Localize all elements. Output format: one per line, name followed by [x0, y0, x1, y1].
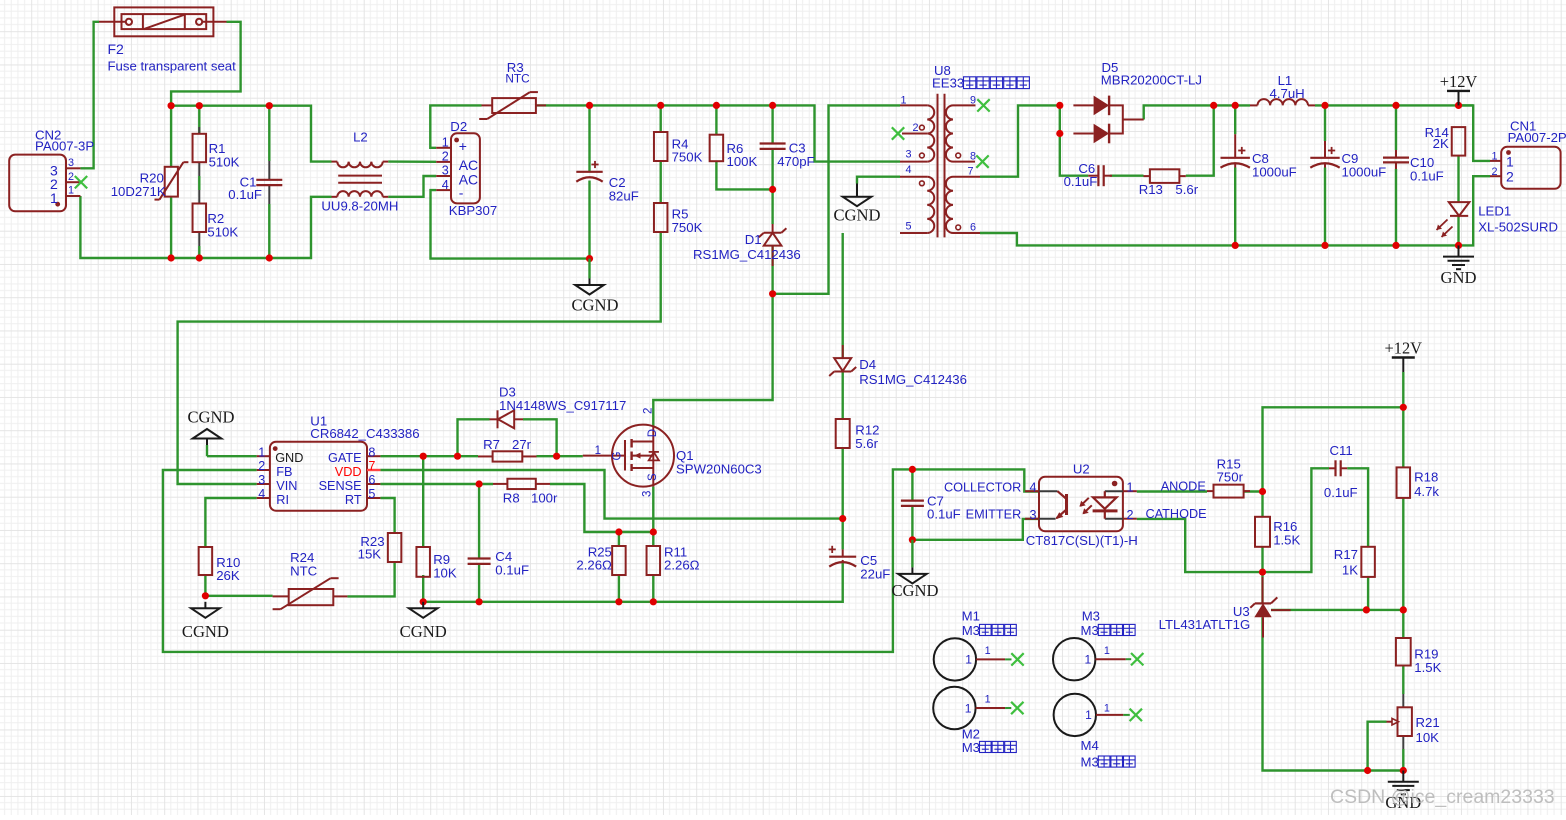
- svg-text:RS1MG_C412436: RS1MG_C412436: [859, 372, 967, 387]
- svg-text:2: 2: [643, 408, 655, 414]
- svg-text:C11: C11: [1330, 443, 1353, 458]
- svg-text:M3: M3: [1081, 754, 1099, 769]
- svg-text:9: 9: [970, 95, 976, 107]
- svg-text:4.7uH: 4.7uH: [1270, 86, 1305, 101]
- svg-text:CGND: CGND: [833, 206, 880, 225]
- svg-text:M3: M3: [962, 740, 980, 755]
- svg-text:1: 1: [965, 653, 972, 667]
- svg-text:1: 1: [68, 185, 74, 197]
- svg-text:1000uF: 1000uF: [1342, 165, 1387, 180]
- svg-text:1N4148WS_C917117: 1N4148WS_C917117: [499, 398, 626, 413]
- svg-text:EMITTER: EMITTER: [966, 508, 1022, 522]
- svg-text:1: 1: [1085, 708, 1092, 722]
- svg-text:1.5K: 1.5K: [1273, 532, 1300, 547]
- svg-text:GND: GND: [1441, 268, 1477, 287]
- svg-text:10K: 10K: [1416, 730, 1440, 745]
- svg-text:4: 4: [442, 178, 449, 192]
- svg-text:KBP307: KBP307: [449, 203, 497, 218]
- svg-text:GND: GND: [275, 451, 303, 465]
- svg-text:1: 1: [985, 645, 991, 657]
- svg-text:510K: 510K: [207, 225, 238, 240]
- svg-text:1: 1: [1506, 153, 1514, 169]
- svg-text:M1: M1: [962, 609, 980, 624]
- svg-text:COLLECTOR: COLLECTOR: [944, 480, 1021, 494]
- svg-text:2: 2: [258, 459, 265, 473]
- svg-text:0.1uF: 0.1uF: [927, 506, 961, 521]
- svg-text:750r: 750r: [1217, 470, 1244, 485]
- svg-text:MBR20200CT-LJ: MBR20200CT-LJ: [1101, 72, 1202, 87]
- svg-text:M4: M4: [1081, 738, 1099, 753]
- svg-text:GATE: GATE: [328, 451, 362, 465]
- svg-text:0.1uF: 0.1uF: [228, 187, 262, 202]
- svg-text:1: 1: [1085, 653, 1092, 667]
- svg-text:CGND: CGND: [891, 581, 938, 600]
- svg-text:3: 3: [905, 149, 911, 161]
- svg-text:3: 3: [1029, 508, 1036, 522]
- svg-text:7: 7: [968, 166, 974, 178]
- svg-text:4.7k: 4.7k: [1414, 484, 1439, 499]
- svg-text:D2: D2: [450, 119, 467, 134]
- svg-text:2: 2: [68, 171, 74, 183]
- svg-text:D1: D1: [745, 232, 762, 247]
- svg-text:2: 2: [912, 122, 918, 134]
- svg-text:RT: RT: [345, 493, 362, 507]
- svg-text:1: 1: [1104, 703, 1110, 715]
- svg-text:26K: 26K: [216, 568, 240, 583]
- svg-text:RS1MG_C412436: RS1MG_C412436: [693, 247, 801, 262]
- svg-text:SPW20N60C3: SPW20N60C3: [676, 461, 762, 476]
- svg-text:2: 2: [1506, 168, 1514, 184]
- svg-text:-: -: [459, 184, 464, 200]
- svg-text:EE33: EE33: [932, 76, 964, 91]
- svg-text:5: 5: [368, 487, 375, 501]
- svg-text:0.1uF: 0.1uF: [1324, 485, 1358, 500]
- svg-text:10D271K: 10D271K: [111, 184, 166, 199]
- svg-text:+: +: [459, 138, 467, 154]
- svg-text:1: 1: [1491, 151, 1497, 163]
- svg-text:LTL431ATLT1G: LTL431ATLT1G: [1159, 617, 1251, 632]
- svg-text:0.1uF: 0.1uF: [1064, 174, 1098, 189]
- svg-text:5.6r: 5.6r: [855, 436, 878, 451]
- svg-text:8: 8: [368, 445, 375, 459]
- svg-text:7: 7: [368, 459, 375, 473]
- svg-text:VIN: VIN: [276, 479, 297, 493]
- svg-text:FB: FB: [276, 465, 292, 479]
- svg-text:CGND: CGND: [400, 622, 447, 641]
- svg-text:CATHODE: CATHODE: [1146, 507, 1207, 521]
- svg-text:VDD: VDD: [335, 465, 362, 479]
- svg-text:2.26Ω: 2.26Ω: [664, 557, 700, 572]
- svg-text:470pF: 470pF: [777, 154, 814, 169]
- svg-text:R8: R8: [503, 490, 520, 505]
- svg-text:6: 6: [368, 473, 375, 487]
- svg-text:82uF: 82uF: [609, 188, 639, 203]
- svg-text:3: 3: [258, 473, 265, 487]
- svg-text:3: 3: [442, 164, 449, 178]
- svg-text:1.5K: 1.5K: [1414, 660, 1441, 675]
- svg-text:2: 2: [442, 150, 449, 164]
- svg-text:15K: 15K: [358, 547, 382, 562]
- svg-text:G: G: [612, 452, 624, 461]
- svg-text:2.26Ω: 2.26Ω: [576, 557, 612, 572]
- svg-text:3: 3: [68, 157, 74, 169]
- svg-text:LED1: LED1: [1478, 204, 1511, 219]
- svg-text:0.1uF: 0.1uF: [1410, 168, 1444, 183]
- svg-text:100r: 100r: [531, 490, 558, 505]
- svg-text:D4: D4: [859, 357, 876, 372]
- svg-text:1: 1: [1127, 481, 1134, 495]
- svg-text:CR6842_C433386: CR6842_C433386: [310, 426, 419, 441]
- svg-text:1: 1: [442, 136, 449, 150]
- svg-text:510K: 510K: [209, 154, 240, 169]
- svg-text:Fuse transparent seat: Fuse transparent seat: [108, 59, 237, 74]
- svg-text:750K: 750K: [672, 220, 703, 235]
- svg-text:5.6r: 5.6r: [1175, 182, 1198, 197]
- svg-text:R7: R7: [483, 437, 500, 452]
- svg-text:2: 2: [1127, 508, 1134, 522]
- svg-text:U2: U2: [1073, 462, 1090, 477]
- svg-text:R13: R13: [1139, 182, 1163, 197]
- svg-text:D: D: [647, 429, 659, 437]
- svg-text:R21: R21: [1416, 715, 1440, 730]
- svg-text:SENSE: SENSE: [319, 479, 362, 493]
- svg-text:1: 1: [900, 95, 906, 107]
- svg-text:UU9.8-20MH: UU9.8-20MH: [321, 199, 398, 214]
- svg-text:CGND: CGND: [182, 622, 229, 641]
- svg-text:4: 4: [258, 487, 265, 501]
- svg-text:NTC: NTC: [290, 563, 318, 578]
- svg-text:PA007-2P: PA007-2P: [1508, 130, 1566, 145]
- svg-text:CGND: CGND: [571, 295, 618, 314]
- svg-text:4: 4: [905, 164, 911, 176]
- svg-text:XL-502SURD: XL-502SURD: [1478, 220, 1558, 235]
- svg-text:R17: R17: [1334, 547, 1358, 562]
- svg-text:NTC: NTC: [505, 72, 530, 86]
- svg-text:1K: 1K: [1342, 563, 1358, 578]
- svg-text:1: 1: [965, 701, 972, 715]
- svg-text:S: S: [647, 473, 659, 481]
- svg-text:0.1uF: 0.1uF: [495, 563, 529, 578]
- svg-text:1000uF: 1000uF: [1252, 165, 1297, 180]
- svg-text:CGND: CGND: [187, 408, 234, 427]
- svg-text:1: 1: [595, 445, 601, 457]
- svg-text:10K: 10K: [433, 565, 457, 580]
- svg-text:M3: M3: [1082, 609, 1100, 624]
- svg-text:CSDN @ice_cream23333: CSDN @ice_cream23333: [1330, 786, 1555, 808]
- svg-text:M3: M3: [1081, 623, 1099, 638]
- svg-text:+12V: +12V: [1385, 339, 1423, 358]
- svg-text:4: 4: [1029, 481, 1036, 495]
- svg-text:CT817C(SL)(T1)-H: CT817C(SL)(T1)-H: [1026, 533, 1138, 548]
- svg-text:8: 8: [970, 151, 976, 163]
- svg-text:R18: R18: [1414, 470, 1438, 485]
- svg-text:F2: F2: [108, 41, 125, 57]
- svg-text:1: 1: [1104, 645, 1110, 657]
- svg-text:2: 2: [1491, 166, 1497, 178]
- svg-text:1: 1: [258, 445, 265, 459]
- svg-text:2K: 2K: [1433, 136, 1449, 151]
- svg-text:3: 3: [642, 491, 654, 497]
- svg-text:M3: M3: [962, 623, 980, 638]
- svg-text:L2: L2: [353, 130, 368, 145]
- svg-text:ANODE: ANODE: [1161, 479, 1206, 493]
- svg-text:1: 1: [50, 190, 58, 206]
- svg-text:27r: 27r: [512, 437, 532, 452]
- svg-text:PA007-3P: PA007-3P: [35, 139, 94, 154]
- svg-text:100K: 100K: [727, 154, 758, 169]
- svg-text:5: 5: [905, 221, 911, 233]
- svg-text:22uF: 22uF: [860, 567, 890, 582]
- svg-text:6: 6: [970, 222, 976, 234]
- svg-text:1: 1: [985, 694, 991, 706]
- svg-text:+12V: +12V: [1440, 72, 1478, 91]
- svg-text:750K: 750K: [672, 150, 703, 165]
- svg-text:RI: RI: [276, 493, 289, 507]
